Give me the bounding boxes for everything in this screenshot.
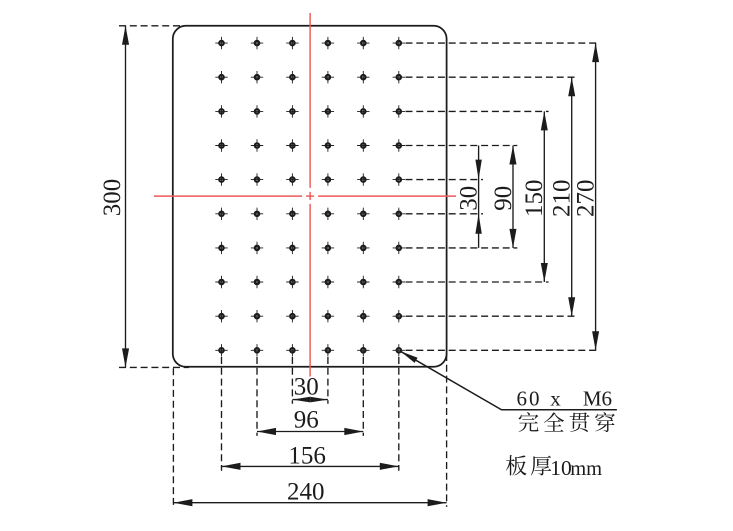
hole r3c1 (M6) bbox=[215, 105, 227, 117]
right extension line row1 bbox=[406, 42, 600, 44]
hole r7c6 (M6) bbox=[393, 242, 405, 254]
dim 90 right: arrows bbox=[509, 146, 516, 165]
hole r4c3 (M6) bbox=[286, 139, 298, 151]
hole r10c1 (M6) bbox=[215, 344, 227, 356]
dim 240: right extension line bbox=[446, 354, 448, 507]
hole r9c3 (M6) bbox=[286, 310, 298, 322]
hole r5c5 (M6) bbox=[357, 173, 369, 185]
bottom extension line col3 bbox=[291, 357, 293, 404]
dim 30 right: dimension line (overshoot, outside arrows) bbox=[478, 146, 480, 248]
dim 150 right: arrows bbox=[541, 111, 548, 130]
note text: 完全贯穿 (fully through) bbox=[518, 412, 538, 432]
right extension line row6 bbox=[406, 213, 484, 215]
dim 240: dimension line bbox=[173, 502, 446, 504]
svg-text:M6: M6 bbox=[583, 387, 612, 411]
right extension line row3 bbox=[406, 110, 549, 112]
hole r8c2 (M6) bbox=[251, 276, 263, 288]
hole r1c2 (M6) bbox=[251, 37, 263, 49]
hole r5c1 (M6) bbox=[215, 173, 227, 185]
hole r9c1 (M6) bbox=[215, 310, 227, 322]
hole r5c6 (M6) bbox=[393, 173, 405, 185]
hole r9c4 (M6) bbox=[322, 310, 334, 322]
hole r6c6 (M6) bbox=[393, 208, 405, 220]
dim 240: left extension line bbox=[172, 368, 174, 507]
svg-text:270: 270 bbox=[573, 179, 600, 217]
dim 30 bottom: dimension line bbox=[292, 399, 328, 401]
hole r6c5 (M6) bbox=[357, 208, 369, 220]
hole r4c5 (M6) bbox=[357, 139, 369, 151]
hole r3c4 (M6) bbox=[322, 105, 334, 117]
hole r2c2 (M6) bbox=[251, 71, 263, 83]
hole r3c5 (M6) bbox=[357, 105, 369, 117]
hole r6c3 (M6) bbox=[286, 208, 298, 220]
svg-text:30: 30 bbox=[294, 374, 319, 401]
hole r8c6 (M6) bbox=[393, 276, 405, 288]
hole r1c4 (M6) bbox=[322, 37, 334, 49]
dim 300: dimension line bbox=[125, 26, 127, 368]
hole r3c2 (M6) bbox=[251, 105, 263, 117]
hole r8c5 (M6) bbox=[357, 276, 369, 288]
hole r10c5 (M6) bbox=[357, 344, 369, 356]
right extension line row7 bbox=[406, 247, 518, 249]
dim 240: arrows bbox=[173, 499, 192, 506]
hole r10c4 (M6) bbox=[322, 344, 334, 356]
svg-text:156: 156 bbox=[288, 443, 326, 470]
hole r1c3 (M6) bbox=[286, 37, 298, 49]
leader arrowhead bbox=[401, 351, 418, 363]
hole r2c1 (M6) bbox=[215, 71, 227, 83]
hole r10c2 (M6) bbox=[251, 344, 263, 356]
dim 30 right: arrow up to bottom point bbox=[475, 214, 481, 234]
plate outline bbox=[173, 26, 447, 367]
bottom extension line col2 bbox=[256, 357, 258, 436]
svg-text:96: 96 bbox=[294, 407, 319, 434]
svg-text:300: 300 bbox=[99, 179, 126, 217]
hole r7c3 (M6) bbox=[286, 242, 298, 254]
dim 300: top extension line bbox=[119, 25, 186, 27]
svg-text:60: 60 bbox=[517, 387, 542, 411]
dim 156: arrows bbox=[222, 463, 241, 470]
hole r7c4 (M6) bbox=[322, 242, 334, 254]
hole r4c1 (M6) bbox=[215, 139, 227, 151]
bottom extension line col4 bbox=[327, 357, 329, 404]
hole r4c6 (M6) bbox=[393, 139, 405, 151]
hole r1c1 (M6) bbox=[215, 37, 227, 49]
right extension line row8 bbox=[406, 281, 549, 283]
hole r4c2 (M6) bbox=[251, 139, 263, 151]
hole r6c1 (M6) bbox=[215, 208, 227, 220]
hole r2c4 (M6) bbox=[322, 71, 334, 83]
hole r5c2 (M6) bbox=[251, 173, 263, 185]
hole r7c2 (M6) bbox=[251, 242, 263, 254]
svg-text:mm: mm bbox=[570, 458, 602, 480]
hole r8c1 (M6) bbox=[215, 276, 227, 288]
hole r8c3 (M6) bbox=[286, 276, 298, 288]
dim 300: arrow up bbox=[122, 26, 129, 45]
hole r6c4 (M6) bbox=[322, 208, 334, 220]
svg-text:150: 150 bbox=[521, 179, 548, 217]
dim 156: dimension line bbox=[222, 465, 399, 467]
right extension line row4 bbox=[406, 145, 518, 147]
dim 300: arrow down bbox=[122, 348, 129, 367]
svg-text:240: 240 bbox=[287, 479, 325, 506]
svg-text:10: 10 bbox=[550, 456, 572, 480]
hole r3c6 (M6) bbox=[393, 105, 405, 117]
hole r1c6 (M6) bbox=[393, 37, 405, 49]
hole r8c4 (M6) bbox=[322, 276, 334, 288]
hole r9c5 (M6) bbox=[357, 310, 369, 322]
hole r2c6 (M6) bbox=[393, 71, 405, 83]
centerline vertical (red) bbox=[309, 13, 311, 188]
svg-text:30: 30 bbox=[456, 186, 483, 211]
right extension line row9 bbox=[406, 315, 577, 317]
dim 30 right: arrow down to top point bbox=[475, 160, 481, 180]
hole r9c6 (M6) bbox=[393, 310, 405, 322]
hole r1c5 (M6) bbox=[357, 37, 369, 49]
dim 90 right: dimension line bbox=[512, 146, 514, 248]
svg-text:x: x bbox=[550, 387, 561, 411]
dim 96: dimension line bbox=[257, 431, 363, 433]
dim 150 right: dimension line bbox=[543, 111, 545, 282]
bottom extension line col1 bbox=[221, 357, 223, 471]
hole r2c5 (M6) bbox=[357, 71, 369, 83]
dim 300: bottom extension line bbox=[119, 366, 189, 368]
hole r10c3 (M6) bbox=[286, 344, 298, 356]
hole r10c6 (M6) bbox=[393, 344, 405, 356]
bottom extension line col5 bbox=[362, 357, 364, 436]
dim 210 right: dimension line bbox=[571, 77, 573, 316]
hole r2c3 (M6) bbox=[286, 71, 298, 83]
hole r6c2 (M6) bbox=[251, 208, 263, 220]
right extension line row5 bbox=[406, 179, 484, 181]
dim 270 right: arrows bbox=[592, 43, 599, 62]
dim 96: arrows bbox=[257, 428, 276, 435]
hole r5c3 (M6) bbox=[286, 173, 298, 185]
hole r3c3 (M6) bbox=[286, 105, 298, 117]
hole r7c5 (M6) bbox=[357, 242, 369, 254]
hole r4c4 (M6) bbox=[322, 139, 334, 151]
note text: 板厚10mm (plate thickness) bbox=[506, 455, 527, 475]
leader line to hole (60 x M6 note) bbox=[401, 351, 617, 410]
hole r7c1 (M6) bbox=[215, 242, 227, 254]
dim 30 bottom: arrows bbox=[292, 397, 310, 403]
dim 210 right: arrows bbox=[568, 77, 575, 96]
hole r9c2 (M6) bbox=[251, 310, 263, 322]
svg-text:90: 90 bbox=[490, 186, 517, 211]
dim 270 right: dimension line bbox=[595, 43, 597, 350]
hole r5c4 (M6) bbox=[322, 173, 334, 185]
bottom extension line col6 bbox=[398, 357, 400, 471]
right extension line row10 bbox=[406, 349, 600, 351]
right extension line row2 bbox=[406, 76, 577, 78]
centerline horizontal (red) bbox=[154, 195, 302, 197]
